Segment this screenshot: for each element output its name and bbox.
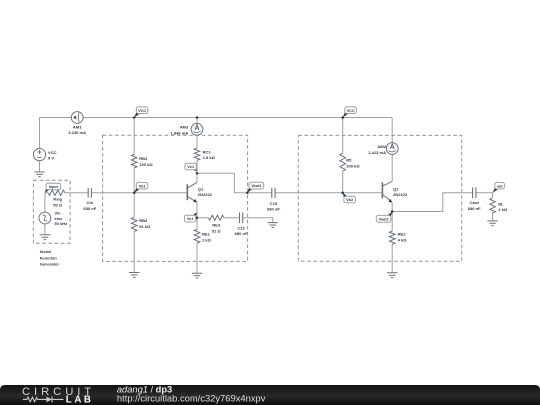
svg-text:Vb1: Vb1 [139,184,146,188]
svg-text:VCC: VCC [138,109,146,113]
resistor R5 200k [340,153,346,171]
wire AM3 to RC1 and Q1 collector [196,135,198,182]
svg-text:100 kΩ: 100 kΩ [139,162,153,167]
stage 2 dashed box [298,135,461,261]
svg-text:RB2: RB2 [139,218,148,223]
power flag VCC stage2 [343,112,348,118]
svg-text:out: out [497,184,504,188]
wire Cin to Q1 base [91,192,187,194]
node flag Input [45,188,49,193]
svg-text:51 Ω: 51 Ω [212,228,222,233]
junction rail-R5 [341,116,344,119]
svg-text:R5: R5 [346,158,352,163]
svg-text:Vout2: Vout2 [379,217,389,221]
wire Vin bottom to ground [44,224,46,235]
svg-text:680 nF: 680 nF [235,231,248,236]
capacitor Cout 680nF [473,187,476,198]
transistor Q2 2N2222 [381,182,383,198]
svg-text:Input: Input [49,185,59,189]
resistor RB1 100k [131,154,137,168]
svg-text:2N2222: 2N2222 [393,192,408,197]
svg-text:3.240 mA: 3.240 mA [68,130,86,135]
svg-text:Instek: Instek [40,249,52,254]
svg-text:51 kΩ: 51 kΩ [139,224,151,229]
wire Q2 emitter branch to Cout [392,193,472,212]
svg-text:Vc1: Vc1 [187,165,194,169]
svg-text:1 kΩ: 1 kΩ [202,237,212,242]
svg-text:Ve1: Ve1 [187,217,194,221]
resistor RE3 51 ohm [209,215,224,220]
svg-text:C15: C15 [270,201,278,206]
svg-text:Rsig: Rsig [53,197,62,202]
wire AM2 to Q2 collector [391,154,393,181]
svg-text:1.846 mA: 1.846 mA [171,130,189,135]
resistor RB2 51k [131,217,137,231]
svg-text:50 Ω: 50 Ω [53,202,63,207]
footer bar [0,385,540,405]
svg-text:AM1: AM1 [73,125,82,130]
node flag Vb2 [343,193,347,198]
svg-text:680 nF: 680 nF [468,206,481,211]
svg-text:200 kΩ: 200 kΩ [346,163,360,168]
svg-text:1.8 kΩ: 1.8 kΩ [203,155,216,160]
wire R5 leads [342,118,344,193]
node flag Vout2 [388,212,392,217]
ground below VCC source [34,172,44,177]
svg-text:680 nF: 680 nF [267,207,280,212]
wire C13 to ground [243,218,273,223]
ammeter AM3 [191,123,203,135]
wire top rail left segment VCC source to AM1 [40,117,72,119]
svg-text:4 kΩ: 4 kΩ [398,237,408,242]
ground below RB2 [129,273,139,278]
node flag Vb1 [134,187,139,192]
wire top rail AM1 to stage2 drop [83,117,392,119]
ground right of C13 [268,223,278,228]
svg-text:Cout: Cout [470,200,480,205]
ground below Vin [40,235,50,240]
svg-text:1 kΩ: 1 kΩ [498,207,508,212]
junction rail-RB1 [133,116,136,119]
node flag Ve1 [193,213,197,217]
resistor Rsig 50 ohm [48,190,65,195]
ammeter AM2 [386,143,398,155]
wire Rsig to Cin [65,192,88,194]
ground below RE2 [387,273,397,278]
wire rail down to AM2 [391,118,393,143]
wire RB1 leads [133,118,135,193]
wire collector branch to Vout1 and C15 [197,173,272,193]
svg-text:C13: C13 [237,226,245,231]
ground below RL [487,221,497,226]
junction Vout1 node [246,191,249,194]
wire Vin top to input node [45,193,48,212]
ground below RE1 [192,273,202,278]
svg-text:2N2222: 2N2222 [198,192,213,197]
wire VCC source to ground [39,161,41,172]
junction Vb2 node [341,191,344,194]
svg-text:9 V: 9 V [48,156,54,161]
node flag Vc1 [194,168,197,171]
svg-text:RE3: RE3 [212,223,221,228]
svg-text:Vb2: Vb2 [346,198,353,202]
resistor RE1 1k [194,229,200,243]
junction Vb1 node [133,192,136,195]
svg-text:RE2: RE2 [398,232,407,237]
resistor RC1 1.8k [194,148,200,160]
resistor RL 1k [490,198,496,213]
resistor RE2 4k [389,231,395,244]
wire RE3 to C13 [224,217,240,219]
svg-text:50 kHz: 50 kHz [54,221,67,226]
capacitor Cin 680nF [88,188,91,198]
svg-text:Generator: Generator [40,262,60,267]
source Vin sine [39,212,51,224]
svg-text:680 nF: 680 nF [83,206,96,211]
svg-text:LAB: LAB [66,394,94,405]
svg-text:http://circuitlab.com/c32y769x: http://circuitlab.com/c32y769x4nxpv [117,393,266,404]
svg-text:RB1: RB1 [139,156,148,161]
junction Vout2 node [391,210,394,213]
node flag out [493,187,498,192]
svg-text:Cin: Cin [87,200,94,205]
wire emitter node to RE3 [197,217,209,219]
wire RB2 leads [133,193,135,273]
wire Q2 emitter to RE2 and ground [391,202,393,272]
svg-text:Function: Function [40,255,58,260]
CircuitLab logo resistor+diode glyph [23,397,64,403]
capacitor C13 680nF [240,213,243,224]
voltage source VCC 9V [33,149,45,161]
svg-text:AM2: AM2 [377,144,386,149]
svg-text:AM3: AM3 [180,125,189,130]
transistor Q1 2N2222 [186,184,188,200]
junction Q1 collector branch [196,172,199,175]
svg-text:Q1: Q1 [198,186,204,191]
ammeter AM1 [71,112,83,124]
capacitor C15 680nF [272,188,275,198]
svg-text:VCC: VCC [48,150,57,155]
junction Ve1 node [196,216,199,219]
wire Q1 emitter down to RE1 and ground [196,202,198,273]
svg-text:VCC: VCC [347,109,355,113]
svg-text:RL: RL [498,201,504,206]
wire VCC source to rail [39,118,41,149]
svg-text:Q2: Q2 [393,186,399,191]
wire Cout to out node and RL [476,193,493,221]
function generator dashed box [33,180,70,243]
power flag VCC stage1 [134,112,139,118]
stage 1 dashed box [103,135,248,261]
wire rail to AM3 [196,118,198,124]
svg-text:RE1: RE1 [202,232,211,237]
junction rail-AM3 [196,116,199,119]
wire C15 to Q2 base [275,192,382,194]
svg-text:1.413 mA: 1.413 mA [368,150,386,155]
svg-text:RC1: RC1 [203,149,212,154]
svg-text:Vout1: Vout1 [251,184,261,188]
node flag Vout1 [247,188,252,193]
